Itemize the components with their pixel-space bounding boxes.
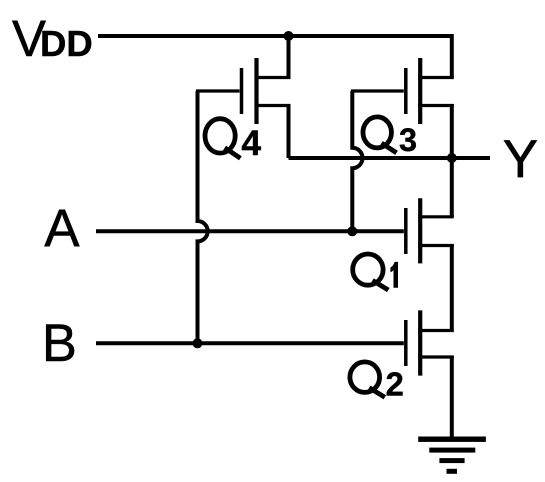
wire: Q1 source lead (bottom) [418, 244, 454, 247]
wire: Q1 drain lead (top) [418, 215, 454, 218]
wire: Q4 gate lead [196, 89, 240, 92]
wire: Q3 source lead (top) [418, 76, 454, 79]
svg-text:3: 3 [399, 122, 417, 158]
wire: Q4 source lead (top) [255, 76, 291, 79]
svg-text:4: 4 [241, 123, 261, 163]
transistor Q4 gate bar [240, 68, 244, 114]
transistor Q1 channel bar [418, 198, 422, 263]
wire: Q4 gate drop to input B with hop over A line [198, 91, 208, 343]
ground symbol [418, 437, 486, 474]
wire: output node Y line [289, 156, 491, 160]
label Q2 (drawn Q glyph + subscript 2) [350, 362, 385, 397]
transistor Q3 gate bar [404, 68, 408, 114]
label Q1 (drawn Q glyph + subscript 1) [353, 254, 389, 290]
label Q3 (drawn Q glyph + subscript 3) [363, 117, 397, 153]
junction dot on B line (node B to Q4 gate) [193, 338, 203, 348]
junction dot on Y node [447, 153, 457, 163]
svg-text:Y: Y [503, 130, 538, 189]
svg-text:DD: DD [40, 23, 93, 64]
label Q4 (drawn Q glyph + subscript 4) [205, 119, 240, 159]
svg-text:A: A [44, 199, 80, 258]
transistor Q4 channel bar [254, 58, 258, 124]
wire: Y node down to Q1 drain [450, 158, 454, 217]
wire: Q1 source down to Q2 drain [450, 244, 454, 331]
wire: Q3 gate drop to input A with hop over Y line [352, 91, 362, 231]
transistor Q2 channel bar [418, 310, 422, 375]
svg-text:2: 2 [386, 365, 404, 402]
wire: VDD rail right down to Q3 source [450, 34, 454, 78]
wire: input A line [96, 229, 404, 233]
wire: VDD junction down toward Q4 [287, 34, 291, 78]
wire: Q4 drain down to output node Y [287, 104, 291, 158]
junction dot on VDD rail [284, 31, 294, 41]
wire: Q2 drain lead (top) [418, 329, 454, 332]
wire: Q2 source lead (bottom) [418, 355, 454, 358]
wire: Q3 gate lead [351, 89, 404, 92]
power rail VDD wire [98, 34, 452, 38]
svg-text:B: B [42, 314, 77, 373]
wire: Q3 drain down to node Y [450, 104, 454, 158]
wire: input B line [96, 341, 404, 345]
transistor Q3 channel bar [418, 58, 422, 124]
wire: Q2 source down to ground [450, 356, 454, 439]
transistor Q2 gate bar [404, 320, 408, 366]
wire: Q3 drain lead (bottom) [418, 104, 454, 107]
junction dot on A line (node A to Q3 gate) [347, 226, 357, 236]
transistor Q1 gate bar [404, 208, 408, 254]
wire: Q4 drain lead (bottom) [255, 104, 291, 107]
